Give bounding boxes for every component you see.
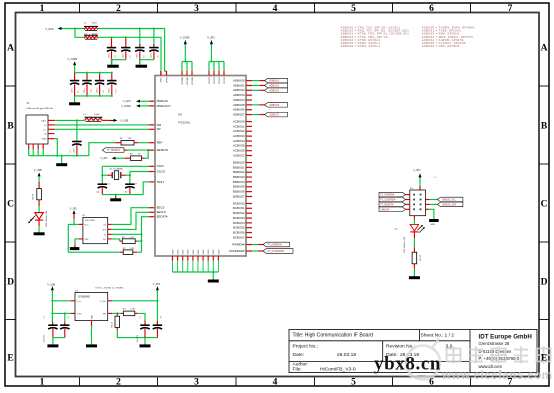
wire <box>419 177 421 186</box>
svg-text:FT_PWREN#: FT_PWREN# <box>268 245 283 247</box>
svg-text:GND: GND <box>208 249 210 254</box>
svg-text:BDBUS4: BDBUS4 <box>233 180 245 184</box>
wire <box>52 312 71 314</box>
pin stub K3 <box>406 208 410 210</box>
ground <box>34 232 45 235</box>
svg-text:BDBUS6: BDBUS6 <box>233 190 245 194</box>
svg-text:LIC: LIC <box>434 177 438 179</box>
svg-text:10uH: 10uH <box>94 114 100 116</box>
svg-text:ADBUS0: ADBUS0 <box>269 80 280 83</box>
svg-text:A: A <box>541 43 548 53</box>
wire FT_PWREN# <box>252 244 258 246</box>
inductor L2 <box>84 27 98 29</box>
net flag ADBUS2 <box>265 88 288 93</box>
svg-text:www.elecfans.com: www.elecfans.com <box>441 370 552 382</box>
svg-text:RESET#: RESET# <box>157 148 169 152</box>
svg-text:BDBUS2: BDBUS2 <box>233 170 245 174</box>
svg-text:1: 1 <box>40 4 45 14</box>
wire <box>137 251 141 253</box>
ground <box>74 96 76 103</box>
svg-text:V_USB: V_USB <box>47 284 55 287</box>
svg-text:ACBUS6 = OE#, GPIOH6: ACBUS6 = OE#, GPIOH6 <box>422 44 460 48</box>
svg-text:SMBUS_SDA: SMBUS_SDA <box>442 203 457 206</box>
svg-text:100n: 100n <box>73 149 75 153</box>
svg-text:10u/16V: 10u/16V <box>137 334 139 342</box>
wire <box>38 220 40 226</box>
wire V_Out <box>108 300 113 302</box>
svg-text:ADBUS5: ADBUS5 <box>233 103 245 107</box>
svg-text:VCCIO: VCCIO <box>214 77 216 84</box>
wire <box>89 143 115 156</box>
wire EECS <box>112 208 149 225</box>
svg-text:3: 3 <box>194 378 199 388</box>
svg-text:V_3P3: V_3P3 <box>413 169 421 172</box>
svg-text:V_3P3: V_3P3 <box>153 283 161 286</box>
wire <box>140 100 149 102</box>
wire DP <box>55 128 149 130</box>
capacitor C10 22p <box>98 183 107 185</box>
svg-text:2: 2 <box>116 378 121 388</box>
svg-text:ADBUS3: ADBUS3 <box>233 93 245 97</box>
svg-text:VPHY: VPHY <box>166 76 168 82</box>
svg-text:1: 1 <box>40 378 45 388</box>
svg-text:LED 1900mcd GN: LED 1900mcd GN <box>404 237 406 253</box>
ground <box>409 276 420 279</box>
svg-text:EECS: EECS <box>157 206 165 210</box>
pin stub X1 D- <box>48 124 55 126</box>
pin stub U2 VCC <box>79 223 83 225</box>
wire EECLK <box>112 212 149 229</box>
net description list ADBUS <box>341 26 409 48</box>
svg-text:CLK: CLK <box>102 229 107 231</box>
svg-text:IDT Europe GmbH: IDT Europe GmbH <box>479 333 533 340</box>
svg-text:10uH: 10uH <box>92 22 98 24</box>
net flag FT_SUSPEND# at K3 <box>379 197 406 202</box>
svg-text:GND: GND <box>213 249 215 254</box>
ground GND <box>429 219 439 222</box>
wire <box>140 60 154 65</box>
svg-text:ADBUS6 = DCD#, GPIOL2: ADBUS6 = DCD#, GPIOL2 <box>341 44 381 48</box>
capacitor C18 27p <box>125 183 134 185</box>
svg-text:TEST: TEST <box>157 180 165 184</box>
net flag ADBUS5 <box>265 103 288 108</box>
svg-text:5: 5 <box>351 4 356 14</box>
wire <box>73 214 75 219</box>
svg-text:ADBUS2: ADBUS2 <box>233 88 245 92</box>
svg-text:PREGIN: PREGIN <box>157 99 168 103</box>
svg-text:FT_SUSPND#: FT_SUSPND# <box>380 200 396 202</box>
svg-text:1 / 2: 1 / 2 <box>445 333 455 339</box>
svg-text:FT2232HL: FT2232HL <box>178 121 191 125</box>
wire SMBUS_SCL <box>426 199 430 201</box>
svg-text:4: 4 <box>273 378 278 388</box>
wire ADBUS1 <box>252 84 260 86</box>
svg-text:FT_RESET#: FT_RESET# <box>380 204 394 206</box>
svg-text:GND: GND <box>198 249 200 254</box>
wire <box>137 240 141 242</box>
svg-text:7: 7 <box>508 378 513 388</box>
ground <box>52 338 54 345</box>
svg-text:ADBUS5: ADBUS5 <box>380 208 390 211</box>
svg-text:100n: 100n <box>109 89 111 93</box>
svg-text:ADBUS4: ADBUS4 <box>233 98 245 102</box>
svg-text:10u/16V: 10u/16V <box>44 334 46 342</box>
power flag V_3P3 top <box>210 44 212 61</box>
led D2 <box>413 216 415 220</box>
net flag ADBUS1 <box>265 83 288 88</box>
svg-text:VCORE: VCORE <box>192 76 194 84</box>
svg-text:Grenzstrasse 28: Grenzstrasse 28 <box>479 341 510 346</box>
inductor L3 <box>84 36 98 38</box>
svg-text:Date:: Date: <box>293 352 305 358</box>
svg-text:GND: GND <box>218 249 220 254</box>
svg-text:www.idt.com: www.idt.com <box>479 364 503 369</box>
connector X1 shield pins <box>28 144 30 149</box>
svg-text:V_Out: V_Out <box>100 300 106 303</box>
pin stub X1 VBus <box>48 119 55 121</box>
net flag ADBUS7 <box>265 112 288 117</box>
svg-text:V_In: V_In <box>77 301 81 303</box>
svg-text:VCORE: VCORE <box>182 76 184 84</box>
svg-text:DP: DP <box>157 127 161 131</box>
svg-text:ADBUS1: ADBUS1 <box>233 83 245 87</box>
wire net V_PLL rail <box>98 37 161 71</box>
svg-text:12K: 12K <box>128 138 132 140</box>
svg-text:Title: High Communication IF B: Title: High Communication IF Board <box>293 333 374 339</box>
resistor R9 1K <box>413 248 415 253</box>
svg-text:100n: 100n <box>151 54 153 58</box>
svg-text:VSS: VSS <box>84 239 89 241</box>
svg-text:R2 1K: R2 1K <box>112 321 114 327</box>
company block text <box>479 333 533 369</box>
svg-text:ADBUS0: ADBUS0 <box>233 79 245 83</box>
svg-text:PREGOUT: PREGOUT <box>157 104 172 108</box>
power flag V_USB <box>114 119 118 122</box>
svg-text:ADBUS7: ADBUS7 <box>233 112 245 116</box>
net flag FT_PWREN# at K3 <box>379 192 406 197</box>
pin stub U2 CLK <box>108 228 112 230</box>
capacitor C3 1u <box>64 313 66 322</box>
svg-text:BCBUS2: BCBUS2 <box>233 211 245 215</box>
svg-text:ADBUS7: ADBUS7 <box>269 114 280 117</box>
svg-text:B: B <box>541 121 548 131</box>
wire <box>38 176 40 182</box>
svg-text:ADBUS5: ADBUS5 <box>269 104 280 107</box>
led D1 <box>38 206 40 213</box>
wire <box>101 166 103 184</box>
svg-text:FT_PWREN#: FT_PWREN# <box>380 195 395 197</box>
svg-text:100n: 100n <box>108 54 110 58</box>
ground <box>144 338 146 345</box>
svg-text:C: C <box>7 199 14 209</box>
svg-text:Q1 16.00MHz: Q1 16.00MHz <box>110 169 124 171</box>
capacitor C11 (V_CORE decoupling) <box>99 73 101 81</box>
svg-text:D: D <box>7 277 14 287</box>
svg-text:E: E <box>541 353 547 363</box>
svg-text:V_CORE: V_CORE <box>121 106 131 108</box>
svg-text:V_3P3: V_3P3 <box>101 158 109 160</box>
pin stub K3 <box>406 203 410 205</box>
wire SMBUS_SDA <box>426 203 430 205</box>
wire U2 VSS to ground <box>75 239 79 245</box>
svg-text:100n: 100n <box>96 89 98 93</box>
ground <box>136 65 148 68</box>
pin stub VPHY <box>166 71 168 76</box>
svg-text:GND: GND <box>183 249 185 254</box>
net flag FT_PWREN# <box>263 242 290 247</box>
svg-text:BCBUS4: BCBUS4 <box>233 221 245 225</box>
svg-text:V_USB: V_USB <box>120 120 128 123</box>
ground U3 GND pin <box>91 321 93 326</box>
svg-text:VOUT = VSON1 (1 + R1/R2): VOUT = VSON1 (1 + R1/R2) <box>95 287 123 289</box>
resistor R4 4K <box>38 182 40 189</box>
wire VCORE bus <box>182 61 192 63</box>
svg-text:VCCIO: VCCIO <box>209 77 211 84</box>
pin stub U2 CS <box>108 223 112 225</box>
svg-text:28.03.18: 28.03.18 <box>337 352 356 358</box>
capacitor C3 (V_GPN decoupling) <box>125 37 127 47</box>
svg-text:BDBUS1: BDBUS1 <box>233 165 245 169</box>
pin stub K3 <box>406 194 410 196</box>
svg-text:10uH: 10uH <box>92 34 98 36</box>
svg-text:E: E <box>7 353 13 363</box>
svg-text:GND: GND <box>178 249 180 254</box>
net description list ACBUS <box>422 26 475 48</box>
wire OSCO <box>130 171 149 173</box>
wire <box>53 337 65 339</box>
svg-text:1.0K: 1.0K <box>130 309 135 311</box>
svg-text:USB micro-B type SMD No.: USB micro-B type SMD No. <box>27 107 54 110</box>
capacitor C5 10u <box>51 322 54 325</box>
ic bottom gnd pins <box>172 256 174 261</box>
wire <box>112 60 126 65</box>
svg-text:V_3P3: V_3P3 <box>70 208 78 210</box>
svg-text:Project No.:: Project No.: <box>293 344 319 350</box>
svg-text:GND: GND <box>42 139 47 141</box>
net flag FT_RESET# at K3 <box>379 202 406 207</box>
wire <box>62 28 85 30</box>
wire FB <box>108 312 113 314</box>
svg-text:BDBUS0: BDBUS0 <box>233 160 245 164</box>
ic left pin labels <box>157 99 172 219</box>
svg-text:Author:: Author: <box>293 361 309 367</box>
resistor R2 1K <box>115 316 120 327</box>
svg-text:PWREN#: PWREN# <box>232 242 245 246</box>
pin stub K3 <box>406 199 410 201</box>
capacitor C8 100n <box>156 301 158 325</box>
svg-text:D: D <box>541 277 548 287</box>
pin stub U2 DI <box>108 233 112 235</box>
pin stub X1 GND <box>48 138 55 140</box>
wire <box>138 313 146 320</box>
ic U1 FT2232HL body <box>155 76 246 257</box>
wire <box>413 232 415 238</box>
svg-text:HiComIFB_V3-0: HiComIFB_V3-0 <box>320 367 356 373</box>
wire <box>116 157 125 159</box>
svg-text:ACBUS7: ACBUS7 <box>233 153 245 157</box>
svg-text:V_USB: V_USB <box>34 169 42 172</box>
wire <box>74 65 76 72</box>
capacitor C5 (V_GPN decoupling) <box>153 29 155 48</box>
svg-text:DM: DM <box>157 123 162 127</box>
pin stub U2 VSS <box>79 238 83 240</box>
net flag FT_RESET# <box>102 148 124 153</box>
svg-text:100n: 100n <box>71 89 73 93</box>
capacitor C6 <box>76 120 78 141</box>
gnd bus wire <box>29 155 89 157</box>
svg-text:6: 6 <box>429 378 434 388</box>
svg-text:5: 5 <box>351 378 356 388</box>
svg-text:C: C <box>541 199 548 209</box>
wire ADBUS7 <box>252 114 260 116</box>
svg-text:ybx8.cn: ybx8.cn <box>374 354 441 375</box>
svg-text:BCBUS3: BCBUS3 <box>233 216 245 220</box>
capacitor C10 (V_CORE decoupling) <box>86 73 88 81</box>
pin stub VPLL <box>160 71 162 76</box>
wire VBus <box>55 119 85 121</box>
svg-text:100n: 100n <box>84 89 86 93</box>
capacitor C2 (V_GPN decoupling) <box>111 37 113 47</box>
svg-text:6: 6 <box>429 4 434 14</box>
svg-text:GND: GND <box>430 224 435 226</box>
svg-text:ACBUS0: ACBUS0 <box>233 119 245 123</box>
title block <box>289 330 537 373</box>
svg-text:V_GPN: V_GPN <box>46 28 54 31</box>
ic top power pins <box>160 71 162 76</box>
gray watermark CJK glyphs <box>447 347 551 364</box>
svg-text:OSCO: OSCO <box>157 169 166 173</box>
svg-text:Sheet No.:: Sheet No.: <box>421 333 444 339</box>
ground <box>74 245 76 248</box>
svg-text:100n: 100n <box>137 54 139 58</box>
wire <box>117 330 157 338</box>
svg-text:V_GPN: V_GPN <box>123 101 131 103</box>
wire <box>413 269 415 277</box>
svg-text:REF: REF <box>157 141 163 145</box>
svg-text:ADBUS1: ADBUS1 <box>269 84 280 87</box>
svg-text:IC4: IC4 <box>178 113 183 117</box>
svg-text:ACBUS2: ACBUS2 <box>233 129 245 133</box>
svg-text:GND: GND <box>193 249 195 254</box>
wire TEST <box>143 182 149 195</box>
svg-text:VCCIO: VCCIO <box>219 77 221 84</box>
ground <box>212 272 214 280</box>
svg-text:3: 3 <box>194 4 199 14</box>
wire net V_PHY rail <box>98 29 167 72</box>
svg-text:R9 1K: R9 1K <box>420 254 422 260</box>
svg-text:FT_RESET#: FT_RESET# <box>107 150 121 152</box>
svg-text:100n: 100n <box>123 54 125 58</box>
wire X1 GND to bus <box>55 139 58 156</box>
svg-text:D-01109 Dresden: D-01109 Dresden <box>479 349 512 354</box>
pin stub U2 DO <box>108 238 112 240</box>
svg-text:R4 4K: R4 4K <box>33 193 35 199</box>
svg-text:VCCIO: VCCIO <box>224 77 226 84</box>
net flag FT_SUSPEND# <box>263 249 293 254</box>
svg-text:2: 2 <box>116 4 121 14</box>
svg-text:File:: File: <box>293 367 302 373</box>
wire <box>138 142 149 144</box>
net flag SMBUS_SCL <box>437 197 463 202</box>
net flag ADBUS0 <box>265 78 288 83</box>
wire V_3P3 pullup rail <box>68 224 119 252</box>
capacitor C9 (V_CORE decoupling) <box>74 73 76 81</box>
svg-text:93LC46B: 93LC46B <box>85 220 95 222</box>
gray watermark logo circle <box>406 339 440 380</box>
wire V_CORE bus <box>75 72 112 74</box>
svg-text:ACBUS5: ACBUS5 <box>233 144 245 148</box>
svg-text:FT_SUSPEND#: FT_SUSPEND# <box>268 251 285 253</box>
wire <box>52 300 71 302</box>
svg-text:EECLK: EECLK <box>157 210 167 214</box>
wire OSCI <box>102 165 149 167</box>
svg-text:B: B <box>7 121 14 131</box>
net flag SMBUS_SDA <box>437 202 463 207</box>
ground <box>107 65 119 68</box>
svg-text:A: A <box>7 43 14 53</box>
wire EEDATA <box>112 217 149 235</box>
svg-text:GND: GND <box>172 249 174 254</box>
svg-text:BCBUS5: BCBUS5 <box>233 226 245 230</box>
capacitor C4 (V_GPN decoupling) <box>139 29 141 48</box>
wire ADBUS5 <box>252 104 260 106</box>
ic right pins <box>246 80 252 82</box>
wire <box>124 149 127 151</box>
wire <box>140 105 149 107</box>
svg-text:BDBUS7: BDBUS7 <box>233 194 245 198</box>
ground <box>61 156 63 164</box>
capacitor C7 10u <box>144 321 146 325</box>
svg-text:ADBUS6: ADBUS6 <box>233 108 245 112</box>
svg-text:V_CORE: V_CORE <box>180 36 190 39</box>
svg-text:4: 4 <box>273 4 278 14</box>
wire <box>145 150 149 158</box>
svg-text:VBus: VBus <box>41 120 47 122</box>
svg-text:BCBUS1: BCBUS1 <box>233 206 245 210</box>
svg-text:GND: GND <box>188 249 190 254</box>
svg-text:V_CORE: V_CORE <box>67 58 77 61</box>
svg-text:ACBUS1: ACBUS1 <box>233 124 245 128</box>
wire K3 gnd <box>426 208 429 210</box>
svg-text:SUSPEND#: SUSPEND# <box>229 249 245 253</box>
svg-text:D-: D- <box>44 125 47 127</box>
svg-text:ACBUS6: ACBUS6 <box>233 149 245 153</box>
svg-text:ACBUS3: ACBUS3 <box>233 134 245 138</box>
svg-text:SMBUS_SCL: SMBUS_SCL <box>442 200 457 202</box>
wire FT_SUSPEND# <box>252 250 258 252</box>
svg-text:OSCI: OSCI <box>157 164 164 168</box>
svg-text:LED 1900mcd GN: LED 1900mcd GN <box>46 211 48 227</box>
svg-text:BCBUS7: BCBUS7 <box>233 235 245 239</box>
svg-text:VCORE: VCORE <box>187 76 189 84</box>
pin stub X1 ID <box>48 133 55 135</box>
wire <box>102 194 143 196</box>
svg-text:BDBUS5: BDBUS5 <box>233 185 245 189</box>
wire ADBUS0 <box>252 80 260 82</box>
title block text <box>293 333 455 373</box>
svg-text:ACBUS4: ACBUS4 <box>233 139 245 143</box>
svg-text:V_En: V_En <box>77 313 82 315</box>
net flag ADBUS5 at K3 <box>379 207 406 212</box>
svg-text:GND: GND <box>91 315 93 320</box>
pin stub X1 D+ <box>48 128 55 130</box>
power flag V_CORE top <box>184 44 186 61</box>
wire <box>51 290 53 322</box>
wire DM <box>55 124 149 126</box>
svg-text:BCBUS0: BCBUS0 <box>233 201 245 205</box>
svg-text:BDBUS3: BDBUS3 <box>233 175 245 179</box>
wire <box>75 29 84 38</box>
